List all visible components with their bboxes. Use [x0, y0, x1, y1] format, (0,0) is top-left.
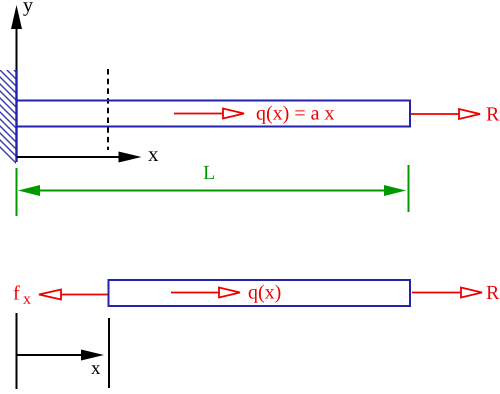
- x-axis arrow: [17, 152, 142, 163]
- dimension line L: [18, 185, 406, 196]
- dimension label L: [204, 166, 214, 179]
- dimension tick right: [408, 165, 410, 212]
- y-axis arrow: [11, 5, 22, 157]
- load label q(x) = a x: [257, 106, 335, 124]
- beam outline (top bar): [17, 101, 411, 127]
- dimension tick left: [16, 168, 18, 216]
- wall edge line: [15, 70, 17, 162]
- force arrow f_x: [39, 290, 108, 300]
- distributed load arrow q(x): [174, 109, 244, 119]
- reaction label R (top): [487, 107, 500, 120]
- label f_x: [14, 285, 20, 299]
- load arrow q(x) (bottom): [171, 288, 240, 298]
- wall hatching: [0, 36, 30, 177]
- reaction arrow R (top): [411, 109, 480, 119]
- section line (bottom): [108, 318, 110, 388]
- x arrow (bottom): [17, 350, 105, 361]
- label q(x) (bottom): [249, 285, 281, 303]
- label R (bottom): [487, 286, 500, 299]
- label x (bottom): [91, 365, 100, 374]
- y-axis label y: [23, 2, 33, 16]
- origin line (bottom left): [16, 313, 18, 389]
- dashed section line: [107, 69, 109, 150]
- free-body bar outline: [109, 280, 411, 306]
- x-axis label x: [148, 151, 158, 161]
- reaction arrow R (bottom): [412, 288, 482, 298]
